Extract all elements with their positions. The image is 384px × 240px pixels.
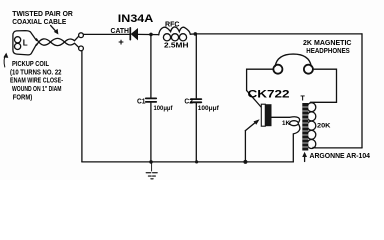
node A junction dot — [149, 33, 153, 37]
svg-text:20K: 20K — [317, 123, 331, 130]
ground dash row 2 — [149, 175, 156, 177]
transformer secondary loop 5 — [307, 140, 316, 149]
svg-text:(10 TURNS NO. 22: (10 TURNS NO. 22 — [10, 69, 62, 76]
transformer primary loop — [290, 121, 299, 126]
transistor Q1 base bar white part — [261, 104, 265, 126]
arrow to twisted pair — [51, 25, 57, 32]
transformer primary exit curve — [293, 125, 300, 162]
node B junction dot — [194, 32, 198, 36]
headphone headband arc — [275, 54, 311, 66]
svg-text:C2: C2 — [184, 98, 193, 105]
inductor RFC humps — [159, 27, 191, 35]
svg-text:L: L — [23, 39, 28, 48]
arrow argonne — [304, 155, 306, 162]
svg-text:CATH: CATH — [111, 28, 130, 35]
diode IN34A triangle — [131, 29, 137, 40]
capacitor C1 branch wire upper — [150, 34, 152, 97]
terminal top — [79, 33, 84, 38]
capacitor C2 plate top — [191, 98, 201, 100]
white stripes on transformer core — [302, 107, 308, 147]
svg-text:100μμf: 100μμf — [154, 105, 174, 112]
diode IN34A cathode bar — [129, 28, 131, 40]
transistor Q1 base bar black part — [265, 104, 271, 126]
capacitor C1 branch wire lower — [150, 103, 152, 162]
terminal bottom — [79, 46, 84, 51]
svg-text:PICKUP COIL: PICKUP COIL — [12, 61, 50, 68]
svg-text:100μμf: 100μμf — [198, 105, 220, 112]
svg-text:2.5MH: 2.5MH — [164, 43, 189, 50]
capacitor C2 plate bottom — [191, 101, 201, 103]
wire bottom right to transformer secondary — [315, 147, 362, 149]
pickup coil inner turn 2 — [15, 43, 21, 49]
wire top terminal to diode — [84, 33, 130, 35]
arrowhead argonne — [302, 152, 307, 157]
svg-text:RFC: RFC — [165, 22, 180, 29]
wire top right run — [195, 33, 362, 35]
wire emitter to bottom — [244, 131, 246, 162]
headphone right earpiece — [304, 65, 313, 74]
transformer secondary loop 1 — [307, 103, 316, 112]
inductor RFC loop 2 — [171, 34, 178, 41]
ground dash row 1 — [146, 172, 158, 174]
transistor Q1 collector diagonal — [247, 91, 262, 108]
inductor RFC loop 1 — [163, 34, 170, 41]
transformer secondary loop 3 — [307, 121, 316, 130]
arrowhead twisted pair — [54, 29, 59, 35]
wire left edge down — [81, 51, 83, 162]
svg-text:COAXIAL CABLE: COAXIAL CABLE — [12, 19, 66, 26]
arrowhead pickup coil — [3, 53, 8, 58]
svg-text:WOUND ON 1" DIAM: WOUND ON 1" DIAM — [12, 86, 62, 93]
junction dot C1 ground — [149, 160, 153, 164]
junction dot C2 bottom — [195, 160, 198, 163]
svg-text:TWISTED PAIR OR: TWISTED PAIR OR — [12, 11, 73, 18]
wire secondary bottom stub — [313, 146, 316, 149]
twisted pair strand 2 — [37, 36, 79, 45]
svg-text:IN34A: IN34A — [118, 13, 154, 25]
svg-text:T: T — [301, 96, 306, 103]
transformer secondary loop 4 — [307, 130, 316, 139]
wire headphone right lead — [311, 69, 337, 102]
capacitor C2 branch wire lower — [195, 103, 197, 162]
transformer secondary loop 2 — [307, 112, 316, 121]
wire headphone left lead — [247, 69, 274, 90]
capacitor C1 plate bottom — [146, 101, 156, 103]
inductor RFC loop 3 — [179, 34, 186, 41]
transformer core laminated bar — [302, 103, 308, 151]
svg-text:+: + — [118, 37, 124, 48]
svg-text:FORM): FORM) — [13, 94, 33, 101]
svg-text:CK722: CK722 — [248, 89, 290, 101]
svg-text:ENAM WIRE CLOSE-: ENAM WIRE CLOSE- — [10, 78, 64, 85]
transistor Q1 emitter arrowhead — [254, 119, 260, 125]
capacitor C2 branch wire upper — [195, 34, 197, 98]
twisted pair strand 1 — [37, 38, 79, 47]
transistor Q1 emitter line — [245, 121, 257, 131]
svg-text:ARGONNE AR-104: ARGONNE AR-104 — [310, 153, 371, 160]
pickup coil inner turn 1 — [15, 37, 21, 43]
ground stub — [151, 163, 153, 171]
pickup coil L outline — [13, 31, 37, 55]
svg-text:C1: C1 — [137, 98, 146, 105]
svg-text:HEADPHONES: HEADPHONES — [306, 46, 350, 55]
wire right edge down — [361, 34, 363, 148]
capacitor C1 plate top — [146, 97, 156, 99]
wire diode to node A — [138, 33, 159, 35]
wire RFC to node B — [190, 33, 196, 35]
wire base lead to transformer primary — [272, 117, 300, 122]
headphone left earpiece — [273, 65, 282, 74]
wire bottom run — [82, 161, 294, 163]
arrow to pickup coil — [4, 55, 6, 68]
svg-text:1K: 1K — [282, 120, 290, 127]
junction dot emitter bottom — [243, 160, 247, 164]
ground dash row 3 — [151, 178, 153, 180]
